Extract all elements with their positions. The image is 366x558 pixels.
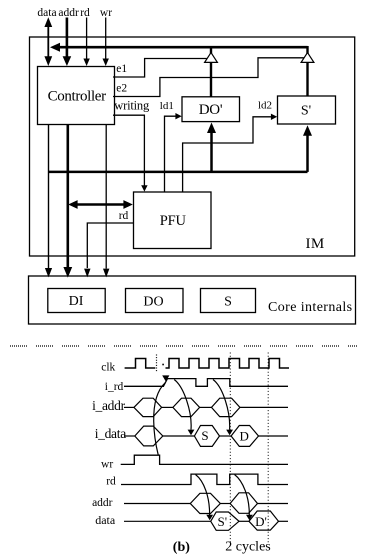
timeline dotted 1 bbox=[229, 353, 231, 543]
svg-text:ld1: ld1 bbox=[160, 100, 174, 112]
svg-text:S: S bbox=[201, 428, 208, 443]
wire wr column (Controller to core) bbox=[103, 125, 109, 278]
svg-text:DI: DI bbox=[69, 294, 84, 309]
svg-text:DO: DO bbox=[143, 294, 163, 309]
wire ld2 (PFU to S') bbox=[183, 114, 278, 192]
wire data column (Controller to core) bbox=[45, 125, 52, 278]
DO' box bbox=[182, 97, 240, 122]
wire e1 (Controller to DO' buffer) bbox=[113, 59, 207, 78]
svg-text:i_data: i_data bbox=[95, 426, 126, 441]
svg-text:writing: writing bbox=[114, 98, 150, 112]
svg-text:Core internals: Core internals bbox=[268, 300, 353, 315]
wire wr (into Controller) bbox=[103, 18, 109, 67]
wr waveform bbox=[121, 455, 288, 464]
wire ld1 (PFU to DO') bbox=[165, 113, 182, 192]
svg-text:clk: clk bbox=[101, 362, 115, 374]
separator dashed line bbox=[10, 345, 358, 347]
Controller box U1 bbox=[38, 67, 115, 125]
PFU box bbox=[134, 192, 212, 249]
svg-text:(b): (b) bbox=[173, 540, 190, 555]
svg-text:rd: rd bbox=[119, 210, 129, 222]
svg-text:D: D bbox=[240, 429, 249, 444]
wire rd (into Controller) bbox=[83, 18, 89, 67]
svg-text:i_addr: i_addr bbox=[92, 398, 125, 413]
svg-text:DO': DO' bbox=[199, 102, 223, 118]
S box bbox=[201, 289, 256, 313]
addr waveform bbox=[124, 493, 288, 514]
svg-text:S: S bbox=[224, 294, 232, 309]
svg-text:data: data bbox=[37, 7, 56, 19]
rd waveform bbox=[121, 474, 288, 484]
svg-text:ld2: ld2 bbox=[258, 100, 272, 112]
svg-text:rd: rd bbox=[106, 476, 116, 488]
wire addr column thick (Controller to core) bbox=[63, 125, 72, 278]
svg-text:wr: wr bbox=[100, 7, 112, 19]
wire bus to S' (thick up arrow) bbox=[303, 125, 312, 172]
DI box bbox=[48, 289, 105, 313]
svg-text:rd: rd bbox=[80, 7, 90, 19]
DO box bbox=[126, 289, 184, 313]
wire bus to DO' (thick up arrow) bbox=[207, 123, 216, 172]
svg-text:i_rd: i_rd bbox=[105, 381, 124, 393]
IM box bbox=[30, 37, 355, 256]
wire addr/PFU double arrow bbox=[68, 200, 133, 209]
arc rd to D' bbox=[235, 475, 253, 521]
wire data (bidirectional vertical, into Controller) bbox=[44, 17, 52, 66]
i_rd waveform bbox=[124, 379, 288, 387]
wire e2 (Controller to S' buffer) bbox=[113, 58, 304, 97]
tri-state buffer for S' bbox=[301, 46, 314, 96]
timeline dotted 2 bbox=[267, 353, 269, 543]
svg-text:D': D' bbox=[255, 514, 267, 529]
svg-text:addr: addr bbox=[58, 7, 79, 19]
svg-text:S': S' bbox=[301, 104, 311, 119]
svg-text:S': S' bbox=[218, 514, 228, 529]
svg-text:addr: addr bbox=[92, 497, 113, 509]
svg-text:IM: IM bbox=[306, 236, 325, 252]
S' box bbox=[278, 96, 336, 124]
Core internals box bbox=[29, 276, 356, 324]
svg-text:e2: e2 bbox=[116, 82, 127, 94]
wire addr (thick, into Controller) bbox=[63, 18, 72, 67]
wire internal data bus (thick horizontal) bbox=[49, 171, 308, 174]
tri-state buffer for DO' bbox=[205, 46, 218, 97]
svg-text:wr: wr bbox=[101, 459, 113, 471]
svg-text:data: data bbox=[95, 513, 116, 527]
svg-text:PFU: PFU bbox=[160, 213, 187, 229]
data waveform bbox=[124, 511, 288, 530]
wire output data bus (thick, arrow to data line) bbox=[50, 43, 308, 52]
svg-text:2 cycles: 2 cycles bbox=[225, 540, 270, 555]
i_data waveform bbox=[124, 426, 288, 447]
clk waveform bbox=[125, 359, 289, 369]
svg-text:e1: e1 bbox=[116, 63, 127, 75]
i_addr waveform bbox=[124, 398, 288, 416]
arc i_rd to S bbox=[174, 380, 194, 436]
svg-text:Controller: Controller bbox=[48, 88, 107, 104]
arc i_rd to D bbox=[213, 380, 233, 436]
wire writing (Controller to PFU) bbox=[113, 115, 148, 191]
arc rd to S' bbox=[196, 475, 214, 521]
arc wr fall to i_rd rise bbox=[154, 375, 170, 454]
clk break marks bbox=[156, 355, 158, 372]
wire rd (PFU to core) bbox=[84, 223, 133, 277]
